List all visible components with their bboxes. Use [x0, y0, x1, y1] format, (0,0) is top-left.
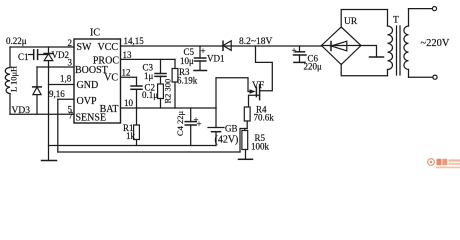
wire bottom rail 2: [58, 151, 240, 153]
svg-text:0.22μ: 0.22μ: [6, 36, 27, 46]
wire bridge bottom lead: [341, 64, 387, 76]
svg-text:VF: VF: [252, 81, 264, 91]
wire pin 1,8 (GND): [49, 84, 75, 86]
svg-text:12: 12: [122, 68, 131, 78]
wire pin 14,15 rail to bridge: [121, 45, 323, 47]
capacitor C4: [190, 108, 192, 122]
svg-text:+: +: [292, 46, 297, 56]
svg-text:2: 2: [68, 38, 73, 48]
svg-text:GND: GND: [77, 80, 99, 91]
resistor R5: [244, 129, 246, 131]
svg-text:3: 3: [68, 58, 73, 68]
svg-text:6.19k: 6.19k: [177, 76, 198, 86]
wire pin 9,16 (OVP): [58, 98, 74, 100]
capacitor C5: [199, 46, 201, 58]
wire secondary top + terminal: [409, 8, 433, 10]
wire bridge right + ground: [361, 46, 377, 58]
svg-text:1μ: 1μ: [144, 71, 154, 81]
wire top-left rail (pin 2 SW): [10, 46, 74, 48]
svg-text:~220V: ~220V: [421, 38, 450, 49]
capacitor C3: [160, 59, 162, 73]
wire left vertical lower: [9, 94, 11, 115]
wire left vertical upper: [9, 47, 11, 68]
svg-text:BOOST: BOOST: [75, 65, 108, 76]
wire bottom rail 1: [49, 145, 217, 147]
svg-text:VC: VC: [104, 73, 118, 84]
wire VD2 column low (to ground rail): [48, 114, 50, 160]
svg-text:10μ: 10μ: [180, 56, 194, 66]
battery GB: [215, 108, 217, 128]
svg-text:VD2: VD2: [52, 50, 70, 60]
svg-text:1,8: 1,8: [60, 74, 72, 84]
ground (under R5): [239, 158, 253, 160]
transformer T primary: [387, 10, 389, 27]
svg-text:9,16: 9,16: [49, 89, 65, 99]
diode VD1: [222, 41, 224, 50]
svg-text:1k: 1k: [126, 131, 136, 141]
transistor VF (MOSFET): [216, 78, 252, 108]
svg-text:OVP: OVP: [77, 96, 97, 107]
transformer core: [396, 26, 398, 75]
wire secondary bottom + terminal: [409, 76, 433, 78]
capacitor C2: [136, 77, 138, 86]
ground (left): [42, 160, 57, 162]
wire R4/R5 junction to rail 2: [240, 129, 247, 153]
svg-text:100k: 100k: [251, 142, 270, 152]
svg-text:L 10μH: L 10μH: [9, 66, 19, 92]
wire OVP drop to bottom rail: [57, 99, 59, 152]
svg-text:14,15: 14,15: [124, 36, 145, 46]
resistor R4: [244, 107, 250, 121]
wire bridge top lead: [341, 10, 387, 28]
svg-text:UR: UR: [344, 17, 358, 27]
wire pin 12: [121, 76, 137, 78]
svg-text:IC: IC: [90, 28, 100, 39]
svg-text:T: T: [393, 16, 399, 26]
inductor L 10uH: [5, 68, 10, 94]
svg-text:+: +: [197, 119, 202, 129]
capacitor C6: [299, 46, 301, 52]
svg-text:70.6k: 70.6k: [254, 113, 275, 123]
svg-text:7: 7: [69, 111, 74, 121]
svg-text:+: +: [201, 46, 206, 56]
wire BAT (pin 10): [121, 107, 217, 109]
svg-text:0.1μ: 0.1μ: [142, 90, 158, 100]
watermark logo: [428, 159, 460, 169]
resistor R1: [136, 108, 138, 125]
bridge rectifier UR: [322, 27, 362, 65]
svg-text:VCC: VCC: [97, 42, 118, 53]
transformer T secondary: [408, 9, 410, 26]
wire pin 3 (BOOST): [37, 66, 74, 68]
wire VD2 column mid (to SENSE wire): [48, 67, 50, 114]
diode VD3: [36, 67, 38, 87]
diode VD2: [48, 47, 50, 54]
svg-text:220μ: 220μ: [304, 62, 323, 72]
resistor R3: [174, 59, 176, 68]
resistor R2: [158, 84, 164, 99]
svg-text:C4 22μ: C4 22μ: [175, 110, 185, 136]
svg-text:SENSE: SENSE: [76, 113, 107, 124]
svg-text:VD1: VD1: [207, 54, 225, 64]
svg-text:13: 13: [123, 50, 133, 60]
svg-text:C1: C1: [18, 52, 29, 62]
svg-text:R2 300: R2 300: [163, 79, 173, 104]
svg-text:(42V): (42V): [215, 135, 239, 146]
svg-text:SW: SW: [77, 42, 93, 53]
op-amp IC box: [74, 39, 121, 123]
wire drain jog to top rail: [256, 46, 273, 91]
wire pin 13: [121, 58, 176, 60]
wire SENSE (pins 5,7): [10, 113, 74, 115]
svg-text:10: 10: [124, 98, 134, 108]
svg-text:GB: GB: [225, 124, 238, 134]
